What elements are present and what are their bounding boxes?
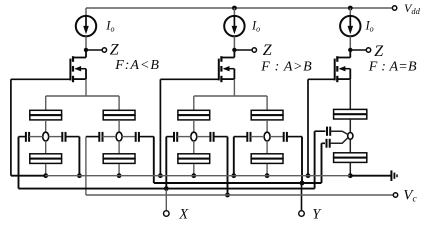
wire to terminal Z 2 xyxy=(234,49,252,51)
wire X cap down to X rail end xyxy=(314,131,316,188)
node block3 on ground rail xyxy=(348,173,353,178)
wire top cap to node cell 3 xyxy=(193,120,195,132)
wire node to bottom cap cell 1 xyxy=(45,141,47,154)
node Y rail junction xyxy=(300,181,305,186)
svg-text:F : A=B: F : A=B xyxy=(368,59,417,74)
capacitor Cr4 (right coupling cap) xyxy=(270,136,284,138)
wire cell1 left cap down to X rail xyxy=(18,137,20,189)
node Vc rail junction xyxy=(225,193,230,198)
svg-text:Vdd: Vdd xyxy=(404,1,421,16)
terminal Z 2 xyxy=(252,48,256,52)
svg-text:Z: Z xyxy=(374,43,384,60)
wire tee to top capacitor cell 3 xyxy=(193,96,195,110)
wire current source to drain node 2 xyxy=(233,36,235,50)
current source I1 xyxy=(76,16,96,36)
node cell 3 on ground rail xyxy=(191,173,196,178)
node drain 3 xyxy=(348,48,352,52)
transistor M2 source wire xyxy=(220,78,234,80)
wire cell3 left cap down to X terminal xyxy=(165,137,167,189)
wire tee to top capacitor cell 4 xyxy=(266,96,268,110)
floating node block3 xyxy=(348,133,353,140)
wire gate M3 down xyxy=(307,79,309,175)
wire rail to current source 2 xyxy=(233,8,235,16)
transistor M3 gate bar xyxy=(334,59,336,81)
node drain 1 xyxy=(84,48,88,52)
svg-text:F : A>B: F : A>B xyxy=(260,59,312,74)
capacitor Cb2 (bottom plate cap) xyxy=(103,154,135,159)
capacitor Ct3 (top plate cap) xyxy=(178,110,210,115)
capacitor Cb1 (bottom plate cap) xyxy=(30,154,62,159)
node cell 2 on ground rail xyxy=(117,173,122,178)
floating node cell 2 xyxy=(116,132,122,141)
node rail junction block 3 xyxy=(348,6,353,11)
svg-text:Vc: Vc xyxy=(403,188,417,205)
capacitor Cl4 (left coupling cap) xyxy=(234,136,248,138)
wire bottom cap to ground rail cell 3 xyxy=(193,164,195,176)
transistor M2 drain wire xyxy=(233,50,235,58)
wire source M3 down to top cap xyxy=(349,79,351,109)
terminal X xyxy=(164,211,170,217)
svg-text:Z: Z xyxy=(263,42,273,59)
wire cell1 right cap down to ground rail xyxy=(78,137,80,176)
transistor M1 source wire xyxy=(72,78,86,80)
wire top cap to node cell 1 xyxy=(45,120,47,132)
wire cell3 right cap down to Vc rail xyxy=(227,137,229,195)
node cell4 left cap junction xyxy=(231,173,236,178)
transistor M1 channel segments xyxy=(72,56,74,62)
node X rail junction xyxy=(164,186,169,191)
wire Vc rail xyxy=(86,194,393,196)
floating node cell 3 xyxy=(191,132,197,141)
node cell1 right cap junction xyxy=(77,173,82,178)
capacitor Cl2 (left coupling cap) xyxy=(86,136,99,138)
wire gate M1 down (floating-gate bus left) xyxy=(10,79,12,175)
wire X rail xyxy=(19,188,315,190)
svg-text:Io: Io xyxy=(251,19,260,34)
wire bottom cap to ground rail cell 2 xyxy=(118,164,120,176)
capacitor Ct2 (top plate cap) xyxy=(103,110,135,115)
transistor M3 channel segments xyxy=(336,56,338,62)
terminal Z 1 xyxy=(102,48,106,52)
wire node to bottom cap block3 xyxy=(349,139,351,153)
capacitor Ct5 (top plate cap, block3) xyxy=(334,109,367,114)
wire gate M2 down xyxy=(159,79,161,175)
transistor M3 source wire xyxy=(336,78,350,80)
wire cell tee block 1 xyxy=(46,95,119,97)
current source I3 xyxy=(340,16,360,36)
wire node to bottom cap cell 2 xyxy=(118,141,120,154)
wire to terminal Z 1 xyxy=(86,49,102,51)
transistor M1 bulk arrow xyxy=(76,68,87,70)
current source I2 xyxy=(224,16,244,36)
wire tee to top capacitor cell 1 xyxy=(45,96,47,110)
capacitor Cx (X coupling cap, block3) xyxy=(315,130,326,132)
capacitor Cr2 (right coupling cap) xyxy=(122,136,136,138)
wire Y rail xyxy=(154,182,322,184)
wire node to bottom cap cell 3 xyxy=(193,141,195,154)
node cell 1 on ground rail xyxy=(43,173,48,178)
floating node cell 4 xyxy=(264,132,270,141)
transistor M3 drain wire xyxy=(349,50,351,58)
wire tee to top capacitor cell 2 xyxy=(118,96,120,110)
wire cell4 right cap down to Y rail xyxy=(301,137,303,183)
node rail junction block 2 xyxy=(232,6,237,11)
capacitor Cb4 (bottom plate cap) xyxy=(251,154,283,159)
wire ground rail (floating-gate bus) xyxy=(11,175,46,177)
wire rail to current source 1 xyxy=(85,8,87,16)
terminal V_dd xyxy=(392,6,396,10)
transistor M1 gate bar xyxy=(69,59,71,81)
capacitor Cr3 (right coupling cap) xyxy=(197,136,211,138)
wire V_dd rail xyxy=(86,7,393,9)
terminal Vc xyxy=(393,193,397,197)
node gate M2 on ground rail xyxy=(158,173,163,178)
node gate M3 on ground rail xyxy=(306,173,311,178)
capacitor Cb3 (bottom plate cap) xyxy=(178,154,210,159)
wire source M2 to cell tee xyxy=(233,79,235,96)
terminal Z 3 xyxy=(366,48,370,52)
svg-text:X: X xyxy=(178,206,189,222)
wire rail to current source 3 xyxy=(349,8,351,16)
wire source M1 to cell tee xyxy=(85,79,87,96)
capacitor Cl3 (left coupling cap) xyxy=(166,136,174,138)
wire gate of M2 to left xyxy=(160,78,218,80)
transistor M2 channel segments xyxy=(220,56,222,62)
wire Y cap down to Y rail end xyxy=(321,143,323,183)
wire cell2 right cap down to Y rail xyxy=(153,137,155,183)
capacitor Cr1 (right coupling cap) xyxy=(49,136,63,138)
wire cell2 left cap down to Vc rail xyxy=(85,137,87,195)
capacitor Cl1 (left coupling cap) xyxy=(19,136,26,138)
svg-text:Z: Z xyxy=(110,42,120,59)
wire to terminal Z 3 xyxy=(350,49,366,51)
node cell 4 on ground rail xyxy=(265,173,270,178)
wire top cap to node cell 4 xyxy=(266,120,268,132)
wire current source to drain node 3 xyxy=(349,36,351,50)
wire top cap to node block3 xyxy=(349,119,351,133)
floating node cell 1 xyxy=(43,132,49,141)
wire bottom cap to ground rail cell 4 xyxy=(266,164,268,176)
wire cell4 left cap down to ground rail xyxy=(233,137,235,176)
wire node to bottom cap cell 4 xyxy=(266,141,268,154)
svg-text:Y: Y xyxy=(312,206,322,222)
transistor M1 drain wire xyxy=(85,50,87,58)
wire bottom cap to ground rail block3 xyxy=(349,162,351,175)
wire top cap to node cell 2 xyxy=(118,120,120,132)
wire bottom cap to ground rail cell 1 xyxy=(45,164,47,176)
svg-text:Io: Io xyxy=(365,19,374,34)
transistor M2 bulk arrow xyxy=(224,68,235,70)
terminal Y xyxy=(299,211,305,217)
wire gate of M1 to left xyxy=(11,78,71,80)
svg-text:F:A<B: F:A<B xyxy=(114,58,160,73)
capacitor Cb5 (bottom plate cap, block3) xyxy=(334,153,367,158)
ground xyxy=(390,170,392,181)
node drain 2 xyxy=(232,48,236,52)
wire cell tee block 2 xyxy=(194,95,267,97)
wire current source to drain node 1 xyxy=(85,36,87,50)
transistor M2 gate bar xyxy=(218,59,220,81)
svg-text:Io: Io xyxy=(105,19,114,34)
capacitor Cy (Y coupling cap, block3) xyxy=(322,142,326,144)
wire gate of M3 to left xyxy=(308,78,335,80)
capacitor Ct1 (top plate cap) xyxy=(30,110,62,115)
transistor M3 bulk arrow xyxy=(340,68,351,70)
capacitor Ct4 (top plate cap) xyxy=(251,110,283,115)
